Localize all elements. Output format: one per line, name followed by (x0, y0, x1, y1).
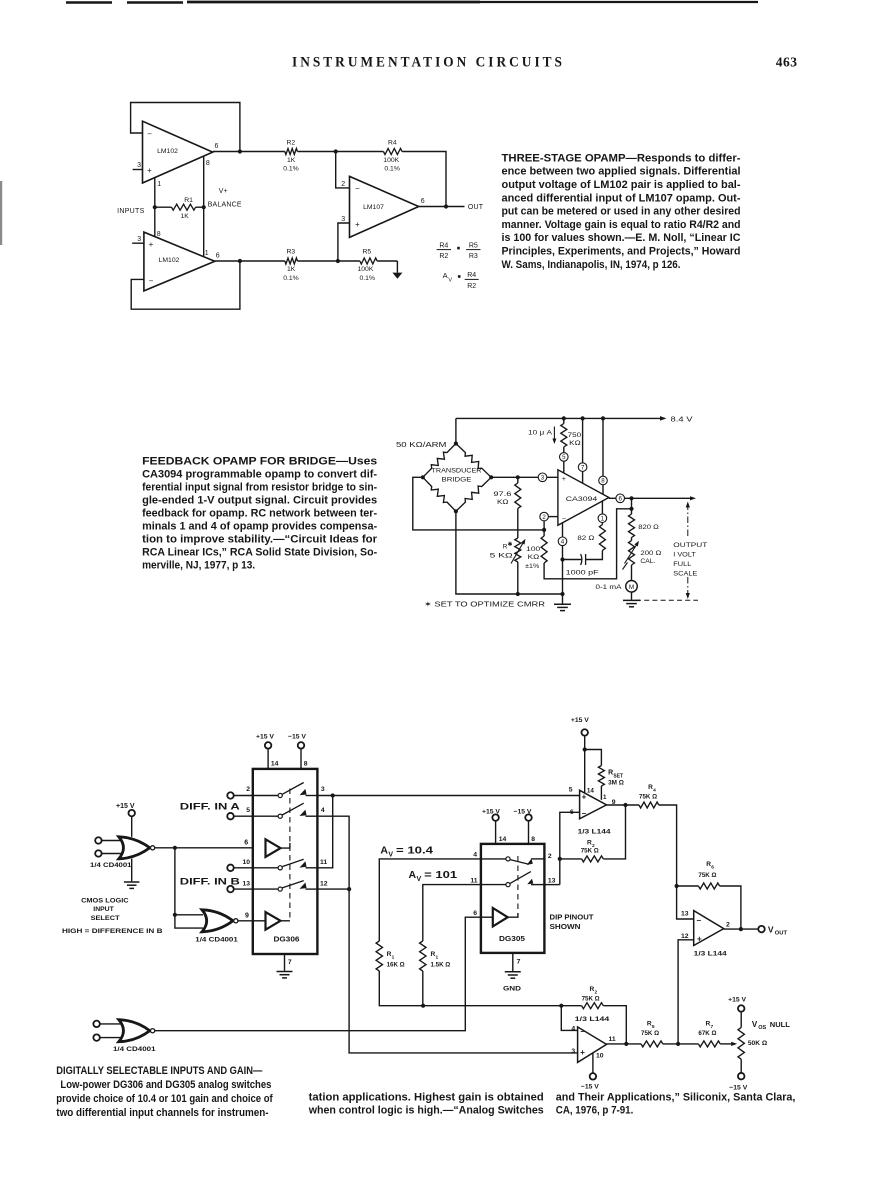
label DIP PINOUT SHOWN (550, 915, 595, 932)
resistor R1 1K balance (155, 197, 204, 220)
NOR gate G1 1/4 CD4001 (119, 837, 155, 859)
svg-text:100K: 100K (358, 266, 374, 273)
svg-text:97.6: 97.6 (493, 491, 512, 498)
resistor R5 100K 0.1% (338, 249, 398, 282)
label 1/3 L144 (A1) (578, 828, 611, 835)
svg-text:R2: R2 (439, 253, 448, 260)
svg-text:FULL: FULL (673, 561, 691, 568)
resistor R7 67K (698, 1021, 737, 1047)
svg-text:11: 11 (320, 859, 327, 866)
svg-text:1/4 CD4001: 1/4 CD4001 (113, 1046, 156, 1053)
op-amp U3 LM107 (350, 176, 419, 237)
node: inputs left junction (153, 205, 157, 209)
svg-text:8: 8 (601, 478, 605, 485)
svg-text:= 10.4: = 10.4 (396, 846, 434, 857)
op-amp A2 1/3 L144 (output) (694, 911, 724, 946)
wire: pins 4/12 tied, down to A3 + input (317, 816, 577, 1053)
svg-text:DG305: DG305 (499, 936, 525, 943)
svg-text:1.5K Ω: 1.5K Ω (431, 961, 451, 968)
resistor R1 16K (376, 941, 423, 1006)
svg-text:5: 5 (562, 454, 566, 461)
pin 8 wire and circle (599, 418, 608, 494)
svg-text:75K Ω: 75K Ω (581, 847, 599, 854)
svg-text:8: 8 (157, 231, 161, 238)
U6 driver buffer (pin 6) (473, 908, 518, 926)
svg-text:7: 7 (581, 464, 585, 471)
op-amp U1 LM102 (top) (143, 121, 213, 183)
svg-text:−: − (355, 184, 360, 193)
G3 input terminals (93, 1021, 121, 1041)
formula R4/R2 = R5/R3 (437, 242, 481, 260)
svg-text:13: 13 (242, 880, 250, 887)
G1 output wire to DG306 pin 6 (155, 840, 266, 848)
svg-text:SCALE: SCALE (673, 570, 698, 577)
resistor R4 100K 0.1% feedback (336, 139, 446, 206)
svg-text:1K: 1K (181, 213, 190, 220)
svg-text:two differential input channel: two differential input channels for inst… (56, 1107, 269, 1119)
wire pin1 net down to lower op-amp pin 8 (154, 207, 156, 237)
svg-text:gle-ended 1-V output signal. C: gle-ended 1-V output signal. Circuit pro… (142, 495, 377, 507)
svg-text:±1%: ±1% (525, 563, 539, 570)
resistor R1 1.5K (420, 941, 451, 1006)
svg-text:GND: GND (503, 985, 521, 992)
svg-text:R4: R4 (439, 242, 448, 249)
formula Av = R4/R2 (443, 271, 479, 290)
node: U1 feedback junction (238, 149, 242, 153)
node: 750K rail junction (562, 416, 566, 420)
analog switch U6 DG305 (481, 844, 545, 953)
svg-text:5: 5 (569, 787, 573, 794)
caption col 2 (308, 1091, 544, 1116)
svg-text:0.1%: 0.1% (283, 275, 299, 282)
label OUTPUT I VOLT FULL SCALE (673, 542, 707, 578)
svg-text:and Their Applications,” Silic: and Their Applications,” Siliconix, Sant… (556, 1091, 796, 1103)
svg-text:50 KΩ/ARM: 50 KΩ/ARM (396, 442, 447, 449)
svg-text:4: 4 (473, 852, 477, 859)
A3 output pin 11 wire (607, 1036, 642, 1044)
U2 non-inverting input wire pin 3 (132, 236, 144, 243)
svg-text:6: 6 (618, 496, 622, 503)
svg-text:1K: 1K (287, 266, 296, 273)
A1 inverting input wire pin 6 (544, 809, 579, 885)
svg-text:CA3094 programmable opamp to c: CA3094 programmable opamp to convert dif… (142, 469, 377, 481)
op-amp U2 LM102 (bottom) (144, 232, 215, 291)
scan artifact left margin (0, 181, 2, 245)
potentiometer 50K VOS NULL (728, 997, 768, 1092)
svg-text:3: 3 (571, 1048, 575, 1055)
node: A1 output junction (623, 803, 627, 807)
svg-text:6: 6 (215, 143, 219, 150)
A2 output pin 2 and VOUT terminal (724, 921, 788, 936)
svg-text:0.1%: 0.1% (384, 166, 400, 173)
resistor R4 75K (639, 784, 677, 886)
svg-text:R2: R2 (467, 283, 476, 290)
label V+ BALANCE (208, 188, 242, 209)
dimension line: output 1 volt full scale (686, 502, 690, 600)
U5 switch row pins 5-4 (input A-) (246, 803, 325, 818)
resistor 97.6 KOhm (493, 477, 520, 538)
svg-text:ence between two applied signa: ence between two applied signals. Differ… (502, 166, 741, 178)
wire: feedback rail to A3 node (423, 1005, 561, 1007)
resistor RSET 3M (585, 750, 624, 801)
label DIFF. IN B (180, 876, 240, 887)
U5 internal control line (dashed) (289, 789, 291, 921)
node: 97.6K top junction (516, 475, 520, 479)
svg-text:1/3 L144: 1/3 L144 (694, 951, 727, 958)
U6 ground pin 7 GND (503, 953, 521, 992)
label 1/3 L144 (A2) (694, 951, 727, 958)
resistor R2 75K (A3 feedback) (561, 986, 626, 1044)
resistor R5 75K (641, 1021, 698, 1047)
svg-text:+: + (562, 476, 566, 483)
node: U2 feedback junction (238, 259, 242, 263)
label DIFF. IN A (180, 802, 240, 813)
svg-text:HIGH = DIFFERENCE IN B: HIGH = DIFFERENCE IN B (62, 928, 163, 935)
resistor 820 Ohm (629, 509, 660, 538)
svg-text:50K Ω: 50K Ω (748, 1040, 768, 1047)
pin 3 circle (538, 473, 547, 482)
label Av = 10.4 (380, 845, 433, 859)
svg-text:11: 11 (609, 1036, 616, 1043)
wire: pins 3/11 tied, to A1 + input (317, 793, 579, 867)
svg-text:DIFF. IN A: DIFF. IN A (180, 802, 240, 813)
svg-text:CA, 1976, p 7-91.: CA, 1976, p 7-91. (556, 1105, 634, 1117)
label 1/4 CD4001 (G2) (195, 937, 238, 944)
svg-text:provide choice of 10.4 or 101: provide choice of 10.4 or 101 gain and c… (56, 1093, 273, 1105)
svg-text:V: V (448, 277, 452, 283)
svg-text:−15 V: −15 V (288, 734, 306, 741)
label 8.4 V (671, 416, 693, 423)
meter M 0-1 mA (596, 565, 638, 592)
label 1/4 CD4001 (G1) (90, 862, 132, 869)
svg-text:R1: R1 (184, 197, 193, 204)
svg-text:3: 3 (541, 475, 545, 482)
node: R4/R6/A2 junction (675, 884, 679, 888)
svg-text:R3: R3 (469, 253, 478, 260)
svg-text:3: 3 (321, 786, 325, 793)
svg-text:+: + (582, 793, 587, 802)
wire: DG305 pin 4 gain select (379, 852, 481, 941)
svg-text:200 Ω: 200 Ω (640, 550, 661, 557)
G3 output wire to DG305 pin 6 (155, 917, 493, 1030)
svg-text:SET: SET (613, 773, 623, 779)
node: pin4/cap junction (560, 557, 564, 561)
svg-text:anced differential input of LM: anced differential input of LM107 opamp.… (502, 192, 741, 204)
svg-text:R5: R5 (469, 242, 478, 249)
svg-text:A: A (409, 869, 417, 881)
svg-text:BALANCE: BALANCE (208, 202, 242, 209)
svg-text:7: 7 (517, 958, 521, 965)
svg-text:6: 6 (570, 809, 574, 816)
wire: bridge bottom to ground rail (456, 511, 563, 594)
svg-text:8: 8 (304, 761, 308, 768)
G1 input terminals (95, 837, 121, 857)
svg-text:0-1 mA: 0-1 mA (596, 584, 623, 591)
label 1/3 L144 (A3) (575, 1016, 610, 1023)
svg-text:1/3 L144: 1/3 L144 (575, 1016, 610, 1023)
U3 inverting input wire pin 2 (336, 152, 350, 189)
svg-text:R4: R4 (467, 272, 476, 279)
svg-text:9: 9 (245, 913, 249, 920)
svg-text:−: − (149, 277, 154, 286)
ground (meter) (623, 592, 640, 607)
svg-text:V: V (417, 876, 422, 883)
svg-text:RCA Linear ICs,” RCA Solid Sta: RCA Linear ICs,” RCA Solid State Divisio… (142, 547, 377, 559)
svg-text:12: 12 (681, 933, 689, 940)
svg-text:V: V (768, 925, 774, 935)
svg-text:13: 13 (681, 910, 689, 917)
G1 ground (124, 859, 139, 889)
dashed reference line at meter ground (636, 599, 698, 601)
svg-text:−: − (562, 515, 566, 522)
svg-text:DIP PINOUT: DIP PINOUT (550, 915, 595, 922)
svg-text:R4: R4 (388, 139, 397, 146)
svg-text:11: 11 (470, 877, 477, 884)
potentiometer R* 5K (CMRR trim) (490, 538, 526, 594)
wire: DG305 pin 11 gain select (423, 877, 481, 941)
svg-text:A: A (443, 271, 448, 280)
input terminal B- (pin 13) (227, 886, 253, 893)
label 50 KOhm/ARM (396, 442, 447, 449)
caption: FEEDBACK OPAMP FOR BRIDGE (142, 456, 378, 572)
svg-text:1: 1 (436, 954, 439, 960)
node: A1 feedback node (558, 857, 562, 861)
U5 +15V terminal pin 14 (256, 734, 279, 769)
U1 non-inverting input wire pin 3 (133, 162, 143, 170)
node: output junction (629, 496, 633, 500)
svg-text:8.4 V: 8.4 V (671, 416, 693, 423)
svg-text:10: 10 (242, 859, 250, 866)
U3 non-inverting input wire pin 3 (338, 216, 350, 261)
label CMOS LOGIC INPUT SELECT (62, 898, 163, 936)
svg-text:merville, NJ, 1977, p 13.: merville, NJ, 1977, p 13. (142, 560, 255, 572)
svg-text:+15 V: +15 V (116, 803, 135, 810)
node: R2/R4/pin2 junction (334, 149, 338, 153)
svg-text:5 KΩ: 5 KΩ (490, 553, 513, 560)
svg-text:put can be metered or used in: put can be metered or used in any other … (502, 206, 741, 218)
op-amp U4 CA3094 (558, 470, 609, 526)
wire: bridge right corner to pin 3 (491, 476, 558, 478)
svg-text:manner. Voltage gain is equal: manner. Voltage gain is equal to ratio R… (502, 219, 741, 231)
U1 pin 1 wire to balance network (155, 178, 161, 207)
U2 pin 8 label (157, 231, 161, 238)
svg-text:+: + (147, 166, 152, 175)
svg-text:INPUTS: INPUTS (117, 208, 144, 215)
svg-text:14: 14 (587, 788, 595, 795)
pin 5 circle and wire (560, 453, 569, 473)
svg-text:minals 1 and 4 of opamp provid: minals 1 and 4 of opamp provides compens… (142, 521, 377, 533)
G2 output wire to DG306 pin 9 (238, 913, 266, 921)
svg-text:OS: OS (758, 1025, 766, 1031)
svg-text:−: − (580, 1027, 585, 1036)
NOR gate G2 1/4 CD4001 (inverter) (202, 910, 238, 932)
svg-text:FEEDBACK OPAMP FOR BRIDGE—Uses: FEEDBACK OPAMP FOR BRIDGE—Uses (142, 456, 377, 468)
svg-text:12: 12 (320, 880, 328, 887)
svg-text:13: 13 (548, 878, 556, 885)
page header INSTRUMENTATION CIRCUITS (292, 55, 565, 71)
svg-text:DG306: DG306 (274, 936, 300, 943)
svg-text:6: 6 (216, 252, 220, 259)
svg-text:1: 1 (205, 250, 209, 257)
svg-text:820 Ω: 820 Ω (638, 524, 659, 531)
wire: select line down to G2 inputs (173, 848, 203, 928)
svg-text:4: 4 (571, 1026, 575, 1033)
pin 4 wire and circle (558, 523, 567, 594)
svg-text:14: 14 (271, 761, 279, 768)
svg-text:+15 V: +15 V (256, 734, 274, 741)
svg-text:8: 8 (206, 160, 210, 167)
U2 pin 1 label (205, 250, 209, 257)
U6 switch row pins 4-2 (gain 10.4, closed) (481, 853, 552, 865)
svg-text:6: 6 (244, 840, 248, 847)
svg-text:LM102: LM102 (157, 148, 178, 155)
svg-text:14: 14 (499, 836, 507, 843)
A3 non-inverting input pin 3 label (571, 1048, 575, 1055)
U1 pin 8 wire to balance network (204, 157, 210, 208)
input terminal B+ (pin 10) (227, 865, 253, 872)
svg-text:R: R (608, 770, 613, 777)
svg-text:OUT: OUT (468, 204, 484, 211)
svg-text:16K Ω: 16K Ω (387, 961, 405, 968)
svg-text:+: + (355, 220, 360, 229)
label INPUTS (117, 208, 144, 215)
svg-text:75K Ω: 75K Ω (582, 995, 600, 1002)
ground (top circuit) (392, 261, 402, 279)
svg-text:TRANSDUCER: TRANSDUCER (432, 467, 482, 474)
svg-text:2: 2 (548, 853, 552, 860)
svg-text:I VOLT: I VOLT (673, 551, 696, 558)
node: A3 output junction (624, 1042, 628, 1046)
svg-text:2: 2 (542, 514, 546, 521)
U5 switch row pins 2-3 (input A+) (246, 783, 325, 798)
svg-text:output voltage of LM102 pair i: output voltage of LM102 pair is applied … (502, 179, 741, 191)
svg-text:+15 V: +15 V (571, 717, 589, 724)
svg-text:0.1%: 0.1% (283, 166, 299, 173)
svg-text:3M Ω: 3M Ω (608, 780, 624, 787)
svg-text:+: + (697, 934, 702, 943)
caption: DIGITALLY SELECTABLE INPUTS AND GAIN col 1 (56, 1065, 273, 1119)
svg-text:2: 2 (341, 181, 345, 188)
svg-text:3: 3 (137, 236, 141, 243)
U2 feedback wire (131, 261, 240, 309)
svg-text:1/3 L144: 1/3 L144 (578, 828, 611, 835)
resistor R6 75K (A2 feedback) (677, 861, 741, 929)
svg-text:V: V (752, 1020, 758, 1029)
pin 6 output circle and wire (609, 494, 696, 503)
svg-text:1: 1 (603, 794, 607, 801)
svg-text:V: V (388, 852, 393, 859)
svg-text:100K: 100K (383, 157, 399, 164)
svg-text:LM102: LM102 (159, 257, 180, 264)
svg-text:CAL.: CAL. (640, 558, 655, 565)
svg-text:10 μ A: 10 μ A (528, 430, 553, 437)
input terminal A+ (pin 2) (227, 792, 253, 799)
resistor R2 75K (A1 feedback) (560, 805, 626, 862)
label 1/4 CD4001 (G3) (113, 1046, 156, 1053)
wire: +8.4V supply rail (456, 416, 667, 421)
node: pin8 rail junction (601, 416, 605, 420)
svg-text:KΩ: KΩ (497, 499, 509, 506)
U5 ground pin 7 (277, 954, 293, 978)
svg-text:M: M (629, 584, 634, 591)
U1 output pin 6 wire (213, 143, 285, 152)
node: pin2/100K junction (542, 528, 546, 532)
svg-text:V+: V+ (219, 188, 228, 195)
svg-text:THREE-STAGE OPAMP—Responds to: THREE-STAGE OPAMP—Responds to differ- (502, 152, 741, 164)
A1 +15V terminal (569, 717, 595, 795)
A1 output pin 9 wire (607, 799, 640, 806)
svg-text:KΩ: KΩ (569, 440, 581, 447)
U3 output pin 6 wire to OUT (419, 198, 465, 207)
svg-text:+: + (580, 1048, 585, 1057)
svg-text:when control logic is high.—“A: when control logic is high.—“Analog Swit… (308, 1105, 544, 1117)
node: R2/A3 node on feedback rail (559, 1004, 563, 1008)
svg-text:OUTPUT: OUTPUT (673, 542, 707, 549)
label * SET TO OPTIMIZE CMRR (424, 600, 545, 608)
svg-text:1K: 1K (287, 157, 296, 164)
svg-text:LM107: LM107 (363, 204, 384, 211)
pin 7 wire and circle (578, 418, 587, 483)
label OUT (468, 204, 484, 211)
node: ground rail junctions (516, 592, 565, 596)
svg-text:KΩ: KΩ (528, 554, 540, 561)
svg-text:9: 9 (612, 799, 616, 806)
svg-text:A: A (380, 845, 388, 857)
svg-text:R5: R5 (363, 249, 372, 256)
svg-text:OUT: OUT (775, 930, 788, 936)
svg-text:1/4 CD4001: 1/4 CD4001 (195, 937, 238, 944)
svg-text:−15 V: −15 V (581, 1083, 599, 1090)
wire: rail to bridge top (455, 418, 457, 443)
svg-text:75K Ω: 75K Ω (698, 872, 716, 879)
U5 -15V terminal pin 8 (288, 734, 308, 769)
svg-text:is 100 for values shown.—E. M.: is 100 for values shown.—E. M. Noll, “Li… (502, 232, 741, 244)
wire pin8 net down to lower op-amp pin 1 (203, 207, 205, 256)
svg-text:✱: ✱ (508, 541, 513, 548)
resistor R2 1K 0.1% (283, 139, 336, 172)
svg-text:2: 2 (726, 921, 730, 928)
svg-text:67K Ω: 67K Ω (698, 1030, 716, 1037)
svg-text:2: 2 (246, 786, 250, 793)
input terminal A- (pin 5) (227, 813, 253, 820)
svg-text:SHOWN: SHOWN (550, 924, 581, 931)
label VOS NULL (752, 1020, 790, 1031)
A2 non-inverting input wire pin 12 (678, 933, 694, 1044)
svg-text:463: 463 (776, 55, 798, 70)
svg-text:0.1%: 0.1% (360, 275, 376, 282)
svg-text:W. Sams, Indianapolis, IN, 197: W. Sams, Indianapolis, IN, 1974, p 126. (502, 259, 681, 271)
label Av = 101 (409, 869, 458, 883)
U2 output pin 6 wire (215, 252, 285, 261)
svg-text:+15 V: +15 V (728, 997, 746, 1004)
page number 463 (776, 55, 798, 70)
svg-text:82 Ω: 82 Ω (577, 535, 594, 542)
U1 feedback wire (output to inverting input) (131, 103, 240, 152)
node: R1 junction on feedback rail (421, 1004, 425, 1008)
svg-text:6: 6 (473, 910, 477, 917)
svg-text:✶ SET TO OPTIMIZE CMRR: ✶ SET TO OPTIMIZE CMRR (424, 600, 545, 608)
pin 1 wire, circle and 82 Ohm resistor (577, 501, 606, 559)
svg-text:NULL: NULL (770, 1020, 790, 1029)
A3 inverting input wire pin 4 (561, 1006, 577, 1033)
svg-text:ferential input signal from re: ferential input signal from resistor bri… (142, 482, 377, 494)
G1 +15V supply terminal (116, 803, 135, 837)
resistor 750 KOhm bias (561, 418, 582, 452)
svg-text:4: 4 (321, 807, 325, 814)
U5 driver buffer (pin 6) (266, 839, 290, 857)
wire: bridge left corner loop to pin 2 node (413, 477, 544, 530)
svg-text:SELECT: SELECT (91, 915, 121, 922)
